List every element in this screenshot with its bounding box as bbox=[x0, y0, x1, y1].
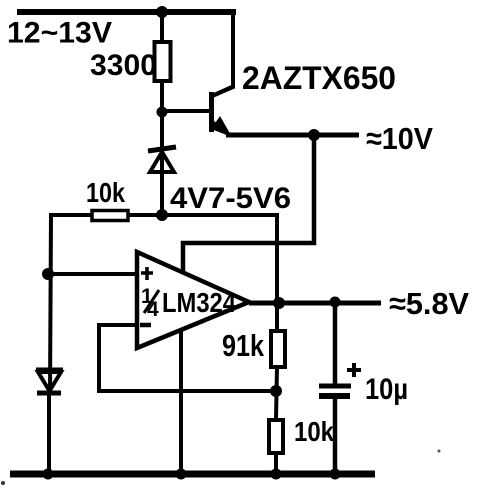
wire collector riser bbox=[212, 12, 233, 96]
resistor R3 91k body bbox=[271, 331, 285, 367]
resistor R1 3300 body bbox=[155, 42, 171, 81]
resistor R4 10k body bbox=[269, 420, 283, 453]
node top rail junction bbox=[156, 6, 168, 18]
wire 91k to divider node bbox=[276, 367, 277, 420]
capacitor C1 10u bbox=[319, 303, 361, 476]
wire diode to ground bbox=[47, 393, 51, 476]
wire left branch bbox=[50, 215, 92, 393]
op-amp U1 quarter LM324 bbox=[137, 252, 249, 348]
node base junction bbox=[157, 107, 168, 118]
resistor R2 10k body bbox=[92, 211, 128, 221]
svg-text:12~13V: 12~13V bbox=[7, 17, 112, 50]
node emitter junction bbox=[308, 129, 320, 141]
node divider junction bbox=[270, 385, 282, 397]
svg-text:10k: 10k bbox=[294, 416, 334, 447]
svg-text:≈10V: ≈10V bbox=[366, 121, 433, 156]
svg-text:LM324: LM324 bbox=[162, 287, 236, 318]
svg-text:≈5.8V: ≈5.8V bbox=[389, 286, 469, 321]
wire output bbox=[249, 301, 381, 306]
wire feedback to inverting input bbox=[99, 325, 274, 391]
diode D1 bbox=[36, 370, 63, 393]
wire op-amp ground pin bbox=[179, 330, 183, 476]
speck bottom left bbox=[1, 481, 5, 485]
ground rail bbox=[10, 471, 375, 478]
wire 10k to ground bbox=[274, 453, 278, 476]
node cap top junction bbox=[330, 297, 341, 308]
wire zener node to op-amp output bbox=[128, 215, 277, 333]
node noninverting junction bbox=[42, 268, 54, 280]
node ground divider bbox=[271, 469, 282, 480]
wire to noninverting input bbox=[48, 272, 137, 276]
wire base bbox=[162, 109, 209, 113]
wire top supply rail bbox=[17, 9, 236, 15]
node zener junction bbox=[156, 209, 168, 221]
speck right bbox=[438, 450, 441, 453]
node ground op-amp bbox=[176, 469, 187, 480]
svg-text:10µ: 10µ bbox=[365, 373, 408, 406]
svg-text:10k: 10k bbox=[86, 177, 125, 208]
svg-text:3300: 3300 bbox=[90, 49, 157, 82]
node ground diode bbox=[43, 469, 54, 480]
wire zener bbox=[160, 112, 164, 215]
node output junction bbox=[273, 297, 285, 309]
wire emitter to 10V tap bbox=[226, 133, 359, 138]
node ground capacitor bbox=[330, 469, 341, 480]
wire op-amp supply from emitter bbox=[183, 135, 314, 273]
zener diode ZD1 bbox=[148, 147, 176, 172]
wire rail to R1 bbox=[160, 12, 164, 46]
svg-text:4: 4 bbox=[147, 298, 159, 321]
wire R1 to base node bbox=[160, 78, 164, 116]
svg-text:91k: 91k bbox=[222, 328, 265, 363]
svg-text:4V7-5V6: 4V7-5V6 bbox=[170, 182, 291, 215]
transistor Q1 2AZTX650 bbox=[211, 86, 234, 137]
svg-text:2AZTX650: 2AZTX650 bbox=[242, 60, 396, 96]
